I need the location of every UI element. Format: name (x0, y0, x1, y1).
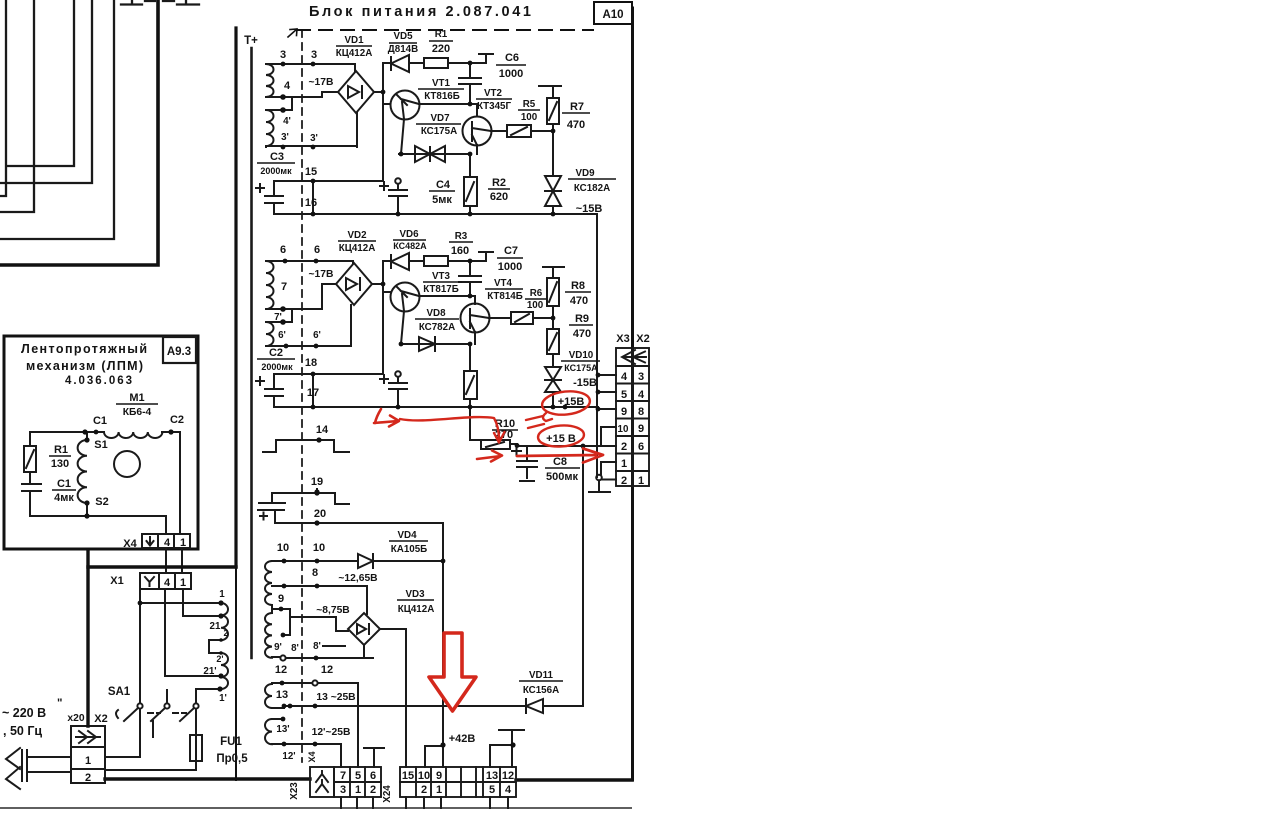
svg-text:3: 3 (638, 371, 644, 383)
svg-text:7: 7 (340, 770, 346, 782)
svg-text:С1: С1 (93, 415, 107, 427)
svg-text:1: 1 (85, 755, 91, 767)
svg-text:2: 2 (85, 772, 91, 784)
svg-text:160: 160 (451, 245, 469, 257)
svg-text:19: 19 (311, 476, 323, 488)
svg-text:S1: S1 (94, 439, 107, 451)
svg-text:С4: С4 (436, 179, 451, 191)
svg-text:КТ345Г: КТ345Г (477, 101, 512, 112)
svg-text:КС175А: КС175А (564, 363, 598, 373)
svg-text:~17В: ~17В (309, 77, 334, 88)
svg-text:2000мк: 2000мк (261, 362, 293, 372)
svg-text:12': 12' (282, 751, 295, 762)
svg-text:~15В: ~15В (576, 203, 603, 215)
svg-text:6': 6' (278, 330, 286, 341)
svg-text:VD5: VD5 (393, 31, 413, 42)
svg-text:4: 4 (638, 389, 645, 401)
svg-text:15: 15 (305, 166, 317, 178)
svg-text:21': 21' (203, 666, 216, 677)
svg-text:Х3: Х3 (616, 333, 629, 345)
svg-text:М1: М1 (129, 392, 144, 404)
svg-text:R9: R9 (575, 313, 589, 325)
svg-text:Х23: Х23 (289, 782, 300, 800)
svg-text:VD3: VD3 (405, 589, 425, 600)
svg-text:Х24: Х24 (382, 785, 393, 803)
svg-text:9: 9 (436, 770, 442, 782)
svg-text:13: 13 (486, 770, 498, 782)
svg-text:1000: 1000 (498, 261, 522, 273)
svg-text:VD1: VD1 (344, 35, 364, 46)
svg-text:6: 6 (638, 441, 644, 453)
svg-text:VD11: VD11 (529, 670, 554, 681)
svg-text:7': 7' (274, 312, 282, 323)
svg-text:4: 4 (621, 371, 628, 383)
svg-text:VT3: VT3 (432, 271, 451, 282)
svg-text:17: 17 (307, 387, 319, 399)
svg-text:С1: С1 (57, 478, 71, 490)
svg-text:КТ816Б: КТ816Б (424, 91, 460, 102)
svg-text:КЦ412А: КЦ412А (398, 604, 435, 615)
svg-text:4: 4 (164, 537, 171, 549)
svg-text:3: 3 (280, 49, 286, 61)
svg-text:С8: С8 (553, 456, 567, 468)
svg-text:470: 470 (570, 295, 588, 307)
svg-text:10: 10 (277, 542, 289, 554)
svg-text:13': 13' (276, 724, 289, 735)
svg-text:+15В: +15В (558, 396, 585, 408)
svg-text:4: 4 (284, 80, 291, 92)
svg-text:18: 18 (305, 357, 317, 369)
svg-text:2: 2 (370, 784, 376, 796)
svg-text:220: 220 (432, 43, 450, 55)
svg-text:VT2: VT2 (484, 88, 503, 99)
svg-text:4.036.063: 4.036.063 (65, 375, 132, 387)
svg-text:VD4: VD4 (397, 530, 417, 541)
svg-text:FU1: FU1 (220, 736, 242, 748)
svg-text:1: 1 (638, 475, 644, 487)
svg-text:100: 100 (527, 300, 544, 311)
svg-text:16: 16 (305, 197, 317, 209)
svg-text:+15 В: +15 В (546, 433, 576, 445)
svg-text:КС782А: КС782А (419, 322, 455, 333)
svg-text:3': 3' (281, 132, 289, 143)
svg-text:Блок питания 2.087.041: Блок питания 2.087.041 (309, 4, 531, 20)
svg-text:10: 10 (418, 770, 430, 782)
svg-text:2: 2 (421, 784, 427, 796)
svg-text:620: 620 (490, 191, 508, 203)
svg-text:6': 6' (313, 330, 321, 341)
svg-text:15: 15 (402, 770, 414, 782)
svg-text:С2: С2 (269, 347, 283, 359)
svg-text:+42В: +42В (449, 733, 476, 745)
svg-text:8': 8' (291, 643, 299, 654)
svg-text:12'~25В: 12'~25В (312, 727, 351, 738)
svg-text:КА105Б: КА105Б (391, 544, 427, 555)
svg-text:S2: S2 (95, 496, 108, 508)
svg-text:9: 9 (638, 423, 644, 435)
svg-text:5: 5 (489, 784, 495, 796)
svg-text:~8,75В: ~8,75В (316, 605, 350, 616)
svg-text:12: 12 (502, 770, 514, 782)
svg-text:VT1: VT1 (432, 78, 451, 89)
svg-text:1': 1' (219, 693, 227, 704)
svg-text:1: 1 (180, 577, 186, 589)
svg-text:VD10: VD10 (569, 350, 594, 361)
svg-text:VD6: VD6 (399, 229, 419, 240)
svg-text:9: 9 (621, 406, 627, 418)
svg-text:С7: С7 (504, 245, 518, 257)
svg-text:VD8: VD8 (426, 308, 446, 319)
svg-text:КС175А: КС175А (421, 126, 457, 137)
svg-text:КС156А: КС156А (523, 685, 559, 696)
svg-text:1: 1 (180, 537, 186, 549)
svg-text:Д814В: Д814В (388, 44, 418, 55)
svg-text:R8: R8 (571, 280, 585, 292)
svg-text:8': 8' (313, 641, 321, 652)
svg-text:А9.3: А9.3 (167, 346, 191, 358)
svg-text:3: 3 (311, 49, 317, 61)
svg-text:R1: R1 (435, 29, 448, 40)
svg-text:Лентопротяжный: Лентопротяжный (21, 342, 147, 356)
svg-text:21: 21 (210, 621, 221, 632)
svg-text:8: 8 (638, 406, 644, 418)
svg-text:VD2: VD2 (347, 230, 367, 241)
svg-text:6: 6 (314, 244, 320, 256)
svg-text:10: 10 (313, 542, 325, 554)
svg-text:Т+: Т+ (244, 35, 258, 47)
svg-text:7: 7 (281, 281, 287, 293)
svg-text:1: 1 (355, 784, 361, 796)
svg-text:А10: А10 (602, 9, 623, 21)
svg-text:4: 4 (505, 784, 512, 796)
svg-text:~17В: ~17В (309, 269, 334, 280)
svg-text:500мк: 500мк (546, 471, 578, 483)
svg-text:КЦ412А: КЦ412А (339, 243, 376, 254)
svg-text:КС482А: КС482А (393, 241, 427, 251)
svg-text:2: 2 (223, 628, 228, 638)
svg-text:R6: R6 (530, 288, 543, 299)
svg-text:14: 14 (316, 424, 329, 436)
svg-text:6: 6 (280, 244, 286, 256)
svg-text:3': 3' (310, 133, 318, 144)
svg-text:R1: R1 (54, 444, 68, 456)
svg-text:1000: 1000 (499, 68, 523, 80)
svg-text:R3: R3 (455, 231, 468, 242)
svg-text:С2: С2 (170, 414, 184, 426)
svg-text:13 ~25В: 13 ~25В (316, 692, 355, 703)
svg-text:Х1: Х1 (110, 575, 123, 587)
svg-text:5: 5 (621, 389, 627, 401)
svg-text:470: 470 (567, 119, 585, 131)
svg-text:470: 470 (573, 328, 591, 340)
svg-text:1: 1 (621, 458, 627, 470)
svg-text:КС182А: КС182А (574, 183, 610, 194)
svg-text:3: 3 (340, 784, 346, 796)
svg-text:х20: х20 (67, 713, 84, 724)
svg-text:VT4: VT4 (494, 278, 513, 289)
svg-text:130: 130 (51, 458, 69, 470)
svg-text:": " (57, 698, 62, 710)
svg-text:С3: С3 (270, 151, 284, 163)
svg-text:12: 12 (321, 664, 333, 676)
svg-text:VD7: VD7 (430, 113, 450, 124)
svg-text:2: 2 (621, 441, 627, 453)
svg-text:-15В: -15В (573, 377, 597, 389)
svg-text:13: 13 (276, 689, 288, 701)
svg-text:Х2: Х2 (94, 713, 107, 725)
svg-text:КЦ412А: КЦ412А (336, 48, 373, 59)
svg-text:~ 220 В: ~ 220 В (2, 706, 46, 720)
svg-text:2: 2 (621, 475, 627, 487)
svg-text:8: 8 (312, 567, 318, 579)
svg-text:Пр0,5: Пр0,5 (216, 753, 248, 765)
svg-text:Х4: Х4 (307, 751, 317, 762)
svg-text:Х2: Х2 (636, 333, 649, 345)
svg-text:9: 9 (278, 593, 284, 605)
svg-text:КТ817Б: КТ817Б (423, 284, 459, 295)
svg-text:1: 1 (436, 784, 442, 796)
svg-text:4: 4 (164, 577, 171, 589)
svg-text:, 50 Гц: , 50 Гц (3, 724, 42, 738)
svg-text:R7: R7 (570, 101, 584, 113)
svg-text:~12,65В: ~12,65В (338, 573, 377, 584)
svg-text:2000мк: 2000мк (260, 166, 292, 176)
svg-text:2': 2' (216, 654, 223, 664)
svg-text:КТ814Б: КТ814Б (487, 291, 523, 302)
svg-text:10: 10 (618, 424, 629, 435)
svg-text:9': 9' (274, 642, 282, 653)
svg-text:100: 100 (521, 112, 538, 123)
svg-text:4мк: 4мк (54, 492, 74, 504)
svg-text:SA1: SA1 (108, 686, 131, 698)
svg-text:R5: R5 (523, 99, 536, 110)
svg-text:12: 12 (275, 664, 287, 676)
svg-text:6: 6 (370, 770, 376, 782)
svg-text:5мк: 5мк (432, 194, 452, 206)
svg-text:20: 20 (314, 508, 326, 520)
svg-text:1: 1 (219, 589, 225, 600)
svg-text:5: 5 (355, 770, 361, 782)
svg-text:С6: С6 (505, 52, 519, 64)
svg-text:КБ6-4: КБ6-4 (123, 407, 152, 418)
svg-text:Х4: Х4 (123, 538, 137, 550)
svg-text:VD9: VD9 (575, 168, 595, 179)
svg-text:R2: R2 (492, 177, 506, 189)
svg-text:4': 4' (283, 116, 291, 127)
